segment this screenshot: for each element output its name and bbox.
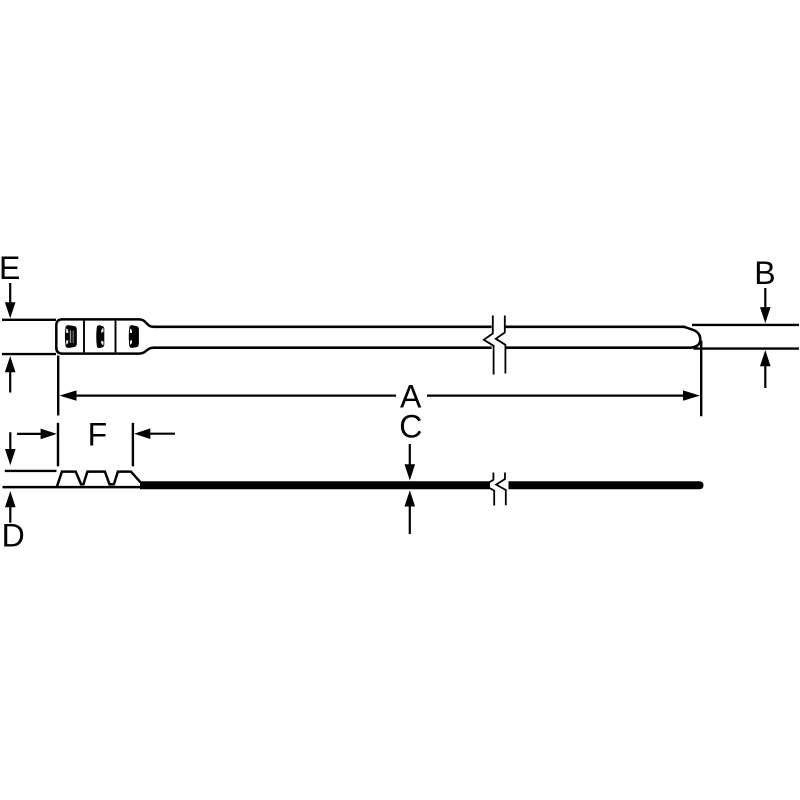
dimension F extension line right	[132, 423, 134, 467]
break line left (side view)	[485, 473, 495, 506]
pawl slot 2	[96, 325, 104, 348]
break line left (top view)	[484, 316, 494, 375]
strap top edge (right segment)	[506, 325, 685, 328]
dimension D arrow up	[5, 491, 16, 523]
svg-text:B: B	[754, 255, 775, 291]
pawl slot 3	[129, 325, 139, 348]
side view head serration profile	[57, 472, 141, 488]
svg-text:E: E	[0, 250, 20, 286]
dimension B extension line top	[692, 324, 799, 326]
break line right (top view)	[496, 316, 506, 374]
svg-text:D: D	[2, 518, 25, 554]
svg-text:F: F	[88, 416, 108, 452]
dimension E arrow up	[5, 356, 16, 393]
head compartment divider 2	[115, 321, 117, 353]
dimension D arrow down	[5, 432, 16, 465]
dimension B arrow down	[760, 288, 771, 323]
strap bottom edge (left segment)	[153, 346, 492, 349]
dimension F arrow pointing right	[17, 429, 57, 440]
dimension B arrow up	[760, 350, 771, 388]
side view strap bottom line	[3, 486, 144, 489]
dimension F arrow pointing left	[134, 428, 175, 439]
strap bottom edge (right segment)	[506, 346, 691, 349]
dimension E arrow down	[5, 283, 16, 318]
break line right (side view)	[496, 473, 506, 506]
dimension A extension line right	[700, 341, 702, 417]
head compartment divider 1	[83, 321, 85, 353]
pawl slot 1	[65, 325, 77, 348]
side view strap bar (right of break, rounded end)	[509, 481, 704, 489]
dimension A line left segment	[76, 395, 397, 397]
strap top edge (left segment)	[153, 325, 492, 328]
dimension F extension line left	[57, 423, 59, 467]
dimension A arrowhead left	[60, 390, 77, 400]
dimension C arrow down	[405, 444, 416, 481]
dimension A extension line left	[57, 356, 59, 416]
dimension A line right segment	[427, 395, 685, 397]
dimension B extension line bottom	[694, 347, 800, 349]
svg-text:C: C	[399, 409, 422, 445]
dimension C arrow up	[405, 490, 416, 534]
dimension D extension line top (side view)	[5, 470, 57, 472]
cable tie head outline (top view)	[56, 319, 153, 353]
side view strap bar (left of break)	[140, 481, 490, 489]
dimension E extension line top	[2, 319, 56, 321]
dimension A arrowhead right	[683, 390, 700, 400]
dimension E extension line bottom	[2, 353, 56, 355]
strap pointed tip	[684, 327, 700, 348]
